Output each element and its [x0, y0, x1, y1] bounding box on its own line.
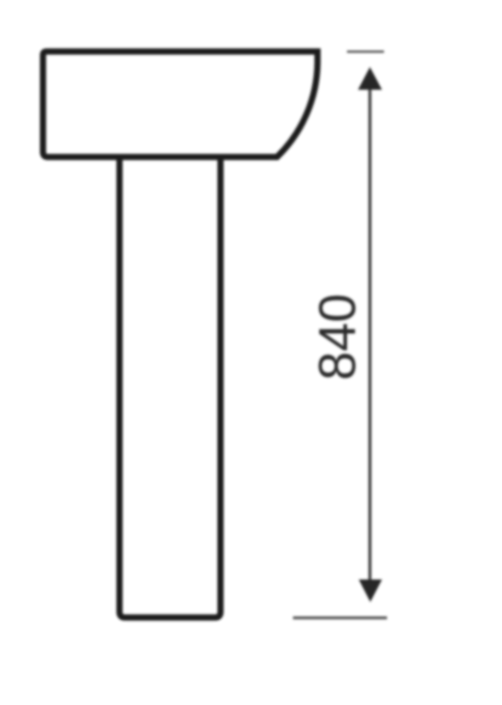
top extension tick — [347, 51, 384, 53]
arrowhead down — [359, 580, 382, 603]
pedestal outline — [120, 157, 221, 618]
dimension line — [368, 82, 371, 588]
svg-text:840: 840 — [309, 294, 367, 381]
bottom extension tick — [293, 616, 387, 619]
arrowhead up — [358, 67, 382, 90]
basin outline — [43, 52, 318, 158]
